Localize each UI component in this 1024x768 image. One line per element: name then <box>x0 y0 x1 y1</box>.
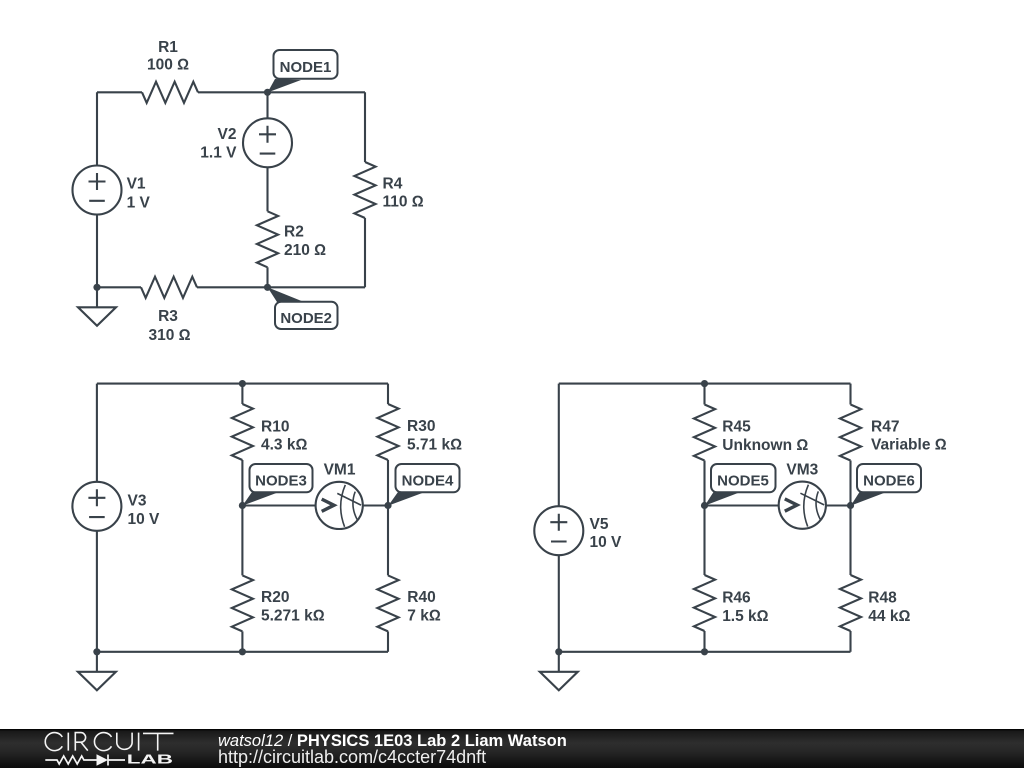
svg-text:110 Ω: 110 Ω <box>383 194 424 211</box>
svg-text:5.71 kΩ: 5.71 kΩ <box>407 437 462 454</box>
svg-text:R2: R2 <box>284 224 304 241</box>
svg-text:V1: V1 <box>127 175 146 192</box>
svg-text:R3: R3 <box>158 308 178 325</box>
svg-text:Variable Ω: Variable Ω <box>871 437 947 454</box>
svg-text:NODE1: NODE1 <box>280 59 332 76</box>
svg-text:10 V: 10 V <box>128 511 161 528</box>
svg-text:R10: R10 <box>261 419 289 436</box>
svg-text:V2: V2 <box>218 126 237 143</box>
svg-text:Unknown Ω: Unknown Ω <box>722 437 808 454</box>
svg-text:VM1: VM1 <box>324 462 356 479</box>
svg-text:R45: R45 <box>722 419 751 436</box>
svg-text:1 V: 1 V <box>127 194 151 211</box>
svg-text:7 kΩ: 7 kΩ <box>407 608 441 625</box>
svg-text:NODE2: NODE2 <box>280 310 332 327</box>
svg-text:R20: R20 <box>261 589 289 606</box>
svg-text:NODE3: NODE3 <box>255 472 307 489</box>
svg-text:NODE4: NODE4 <box>402 472 454 489</box>
svg-text:R1: R1 <box>158 39 178 56</box>
svg-text:5.271 kΩ: 5.271 kΩ <box>261 608 325 625</box>
svg-text:1.1 V: 1.1 V <box>200 144 237 161</box>
svg-text:NODE6: NODE6 <box>863 472 915 489</box>
svg-text:R47: R47 <box>871 419 899 436</box>
svg-text:10 V: 10 V <box>590 534 623 551</box>
svg-text:V5: V5 <box>590 516 609 533</box>
svg-text:R46: R46 <box>722 590 751 607</box>
svg-text:R4: R4 <box>383 176 403 193</box>
svg-text:210 Ω: 210 Ω <box>284 242 326 259</box>
svg-text:R48: R48 <box>868 590 897 607</box>
svg-text:44 kΩ: 44 kΩ <box>868 608 910 625</box>
svg-text:100 Ω: 100 Ω <box>147 57 189 74</box>
svg-text:R30: R30 <box>407 418 435 435</box>
svg-text:VM3: VM3 <box>786 462 818 479</box>
svg-text:V3: V3 <box>128 493 147 510</box>
svg-text:1.5 kΩ: 1.5 kΩ <box>722 608 768 625</box>
svg-text:R40: R40 <box>407 589 435 606</box>
svg-text:LAB: LAB <box>127 752 173 766</box>
svg-text:NODE5: NODE5 <box>717 472 769 489</box>
svg-text:4.3 kΩ: 4.3 kΩ <box>261 437 307 454</box>
svg-text:310 Ω: 310 Ω <box>148 327 190 344</box>
